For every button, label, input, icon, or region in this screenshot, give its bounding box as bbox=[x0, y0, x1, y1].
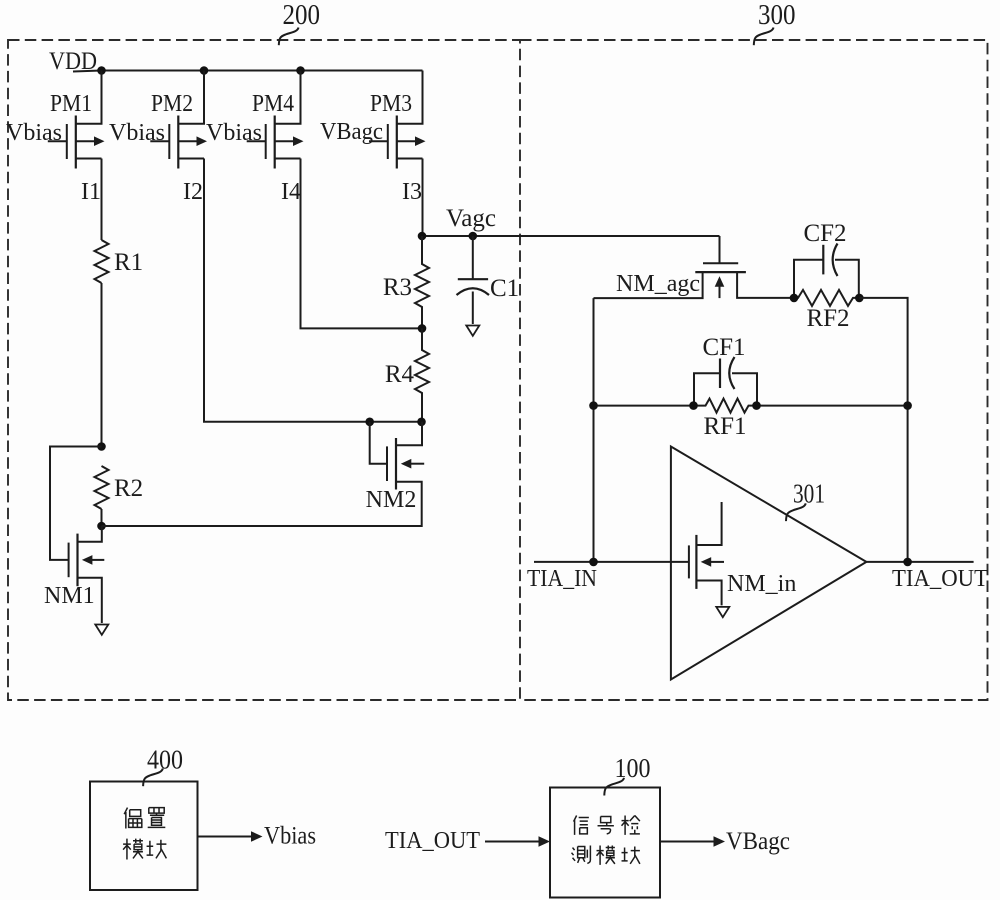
node dot VDD-PM4 bbox=[296, 66, 305, 75]
node dot TIA_IN rail bbox=[589, 401, 598, 410]
label 100 bbox=[604, 753, 650, 796]
label Vagc bbox=[446, 205, 496, 232]
svg-text:300: 300 bbox=[758, 0, 796, 31]
text bias module char pian bbox=[124, 808, 142, 829]
svg-text:R3: R3 bbox=[383, 274, 412, 301]
ground below NM_in bbox=[716, 607, 729, 617]
svg-text:TIA_OUT: TIA_OUT bbox=[385, 828, 480, 854]
node dot TIA_OUT bbox=[903, 558, 912, 567]
op-amp 301 triangle bbox=[671, 447, 867, 680]
wire R1 bottom to R2 top node bbox=[101, 283, 103, 447]
svg-text:NM_in: NM_in bbox=[727, 571, 796, 597]
wire RF1 rail bbox=[594, 405, 908, 407]
transistor NM1 bbox=[44, 526, 104, 623]
wire TIA_IN node vertical bbox=[593, 298, 595, 562]
resistor R4 bbox=[385, 328, 429, 421]
text signal detection char ce bbox=[572, 846, 591, 864]
label VBagc output bbox=[726, 828, 790, 855]
svg-text:I3: I3 bbox=[402, 179, 422, 205]
svg-text:R1: R1 bbox=[114, 249, 143, 276]
text bias module char mo bbox=[123, 839, 143, 860]
label 301 bbox=[786, 479, 825, 522]
dashed box 200 (bias/control block border) bbox=[8, 40, 520, 700]
label I3 bbox=[402, 179, 422, 205]
node dot RF2 right bbox=[855, 294, 864, 303]
box 400 bias module bbox=[90, 782, 198, 891]
text signal detection char xin bbox=[574, 816, 589, 835]
node dot Vagc-C1 bbox=[469, 232, 478, 241]
node dot RF1 right bbox=[752, 401, 761, 410]
label I2 bbox=[183, 179, 203, 205]
svg-text:I2: I2 bbox=[183, 179, 203, 205]
text bias module char kuai bbox=[147, 840, 167, 859]
svg-text:RF1: RF1 bbox=[703, 413, 746, 440]
ground below NM1 bbox=[95, 625, 108, 635]
text signal detection char hao bbox=[598, 817, 614, 834]
svg-text:Vagc: Vagc bbox=[446, 205, 496, 232]
label TIA_IN bbox=[527, 566, 597, 592]
svg-text:NM1: NM1 bbox=[44, 583, 95, 609]
label 400 bbox=[143, 745, 183, 787]
node dot R4 bottom / NM2 drain bbox=[417, 418, 426, 427]
svg-text:Vbias: Vbias bbox=[264, 823, 316, 850]
box 100 signal detection module bbox=[550, 788, 660, 898]
svg-text:PM4: PM4 bbox=[252, 91, 294, 117]
wire VDD rail bbox=[73, 71, 423, 72]
arrow Vbias output bbox=[198, 831, 263, 842]
svg-text:PM1: PM1 bbox=[50, 91, 92, 117]
wire PM1 drain to R1 bbox=[101, 159, 103, 241]
svg-text:CF2: CF2 bbox=[803, 220, 846, 247]
transistor NM_agc bbox=[594, 263, 795, 298]
text signal detection char jian bbox=[622, 816, 640, 835]
wire R2 bottom bbox=[101, 509, 103, 526]
transistor PM2 bbox=[109, 71, 207, 169]
label Vbias output bbox=[264, 823, 316, 850]
resistor R2 bbox=[95, 466, 144, 509]
transistor NM_in bbox=[689, 502, 796, 605]
node dot NM2 gate branch bbox=[365, 418, 374, 427]
node dot TIA_OUT rail bbox=[903, 401, 912, 410]
node dot RF1 left bbox=[689, 401, 698, 410]
node dot TIA_IN bbox=[589, 558, 598, 567]
svg-text:RF2: RF2 bbox=[806, 305, 849, 332]
label I1 bbox=[81, 179, 101, 205]
label 300 bbox=[754, 0, 796, 45]
svg-text:R2: R2 bbox=[114, 475, 143, 502]
svg-text:I1: I1 bbox=[81, 179, 101, 205]
svg-text:NM2: NM2 bbox=[366, 487, 417, 513]
wire NM1 gate feed bbox=[50, 447, 102, 560]
arrow VBagc output bbox=[660, 836, 725, 847]
svg-text:200: 200 bbox=[283, 0, 321, 31]
wire TIA_IN bbox=[534, 561, 689, 563]
capacitor CF1 bbox=[694, 334, 757, 406]
transistor PM3 bbox=[320, 71, 426, 169]
wire Vagc rail bbox=[422, 235, 720, 237]
resistor R3 bbox=[383, 236, 429, 328]
arrow into box 100 bbox=[485, 836, 550, 847]
text signal detection char mo2 bbox=[597, 846, 615, 865]
svg-text:TIA_IN: TIA_IN bbox=[527, 566, 597, 592]
svg-text:TIA_OUT: TIA_OUT bbox=[892, 566, 988, 592]
text bias module char zhi bbox=[148, 808, 166, 828]
node dot RF2 left bbox=[790, 294, 799, 303]
svg-text:VBagc: VBagc bbox=[726, 828, 790, 855]
node dot Vagc-R3 bbox=[418, 232, 427, 241]
capacitor C1 bbox=[457, 236, 520, 324]
svg-text:NM_agc: NM_agc bbox=[616, 271, 700, 297]
transistor PM4 bbox=[206, 71, 304, 169]
svg-text:R4: R4 bbox=[385, 361, 415, 388]
wire PM2 drain down to NM2 node bbox=[204, 159, 422, 422]
svg-text:301: 301 bbox=[793, 479, 825, 509]
wire RF2 to TIA_OUT vertical bbox=[859, 298, 907, 562]
svg-text:PM3: PM3 bbox=[370, 91, 412, 117]
wire TIA_OUT bbox=[866, 561, 973, 563]
label 200 bbox=[279, 0, 320, 45]
svg-text:CF1: CF1 bbox=[702, 334, 745, 361]
resistor R1 bbox=[95, 240, 144, 283]
svg-text:PM2: PM2 bbox=[151, 91, 193, 117]
dashed box 300 (TIA block border) bbox=[520, 40, 988, 700]
wire Vagc to NM_agc gate bbox=[719, 236, 721, 263]
svg-text:C1: C1 bbox=[490, 275, 519, 302]
resistor RF2 bbox=[794, 290, 859, 332]
VDD label bbox=[49, 48, 97, 75]
node dot VDD-PM2 bbox=[200, 66, 209, 75]
transistor NM2 bbox=[102, 422, 425, 526]
label TIA_OUT bottom bbox=[385, 828, 480, 854]
wire PM3 drain to Vagc node bbox=[422, 159, 424, 237]
svg-text:100: 100 bbox=[615, 753, 651, 783]
node dot R2 bottom bbox=[97, 522, 106, 531]
label I4 bbox=[281, 179, 301, 205]
node dot R2 top bbox=[97, 442, 106, 451]
node dot VDD-PM1 bbox=[97, 66, 106, 75]
text signal detection char kuai2 bbox=[622, 847, 640, 864]
ground below C1 bbox=[466, 326, 479, 336]
label TIA_OUT bbox=[892, 566, 988, 592]
resistor RF1 bbox=[694, 399, 757, 440]
capacitor CF2 bbox=[794, 220, 859, 298]
node dot R3 bottom bbox=[418, 324, 427, 333]
svg-text:400: 400 bbox=[147, 745, 183, 775]
transistor PM1 bbox=[6, 71, 105, 169]
svg-text:I4: I4 bbox=[281, 179, 301, 205]
wire PM4 drain down to R3 bottom node bbox=[301, 159, 423, 329]
